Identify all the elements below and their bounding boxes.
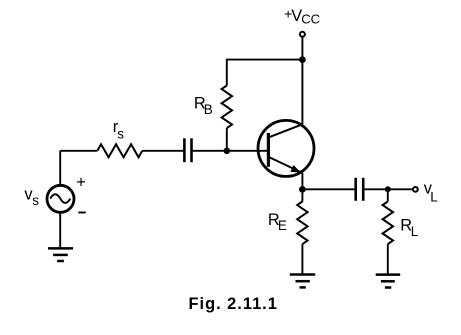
voltage source vs <box>47 185 74 212</box>
wire RB top <box>227 60 303 86</box>
resistor RB <box>222 86 232 129</box>
capacitor C1 <box>184 138 191 162</box>
terminal +VCC <box>300 32 305 37</box>
label +VCC <box>284 6 320 26</box>
label RL <box>400 217 419 239</box>
node VCC junction <box>299 56 306 63</box>
label RB <box>194 95 213 118</box>
svg-text:s: s <box>32 193 39 208</box>
label vL <box>424 180 439 205</box>
node base junction <box>224 148 231 155</box>
svg-text:+: + <box>76 174 86 192</box>
wire C2 to output <box>363 188 412 190</box>
ground (RL) <box>376 275 401 288</box>
svg-text:Fig. 2.11.1: Fig. 2.11.1 <box>189 295 278 313</box>
wire collector <box>301 60 303 125</box>
label vs <box>24 186 39 208</box>
resistor RL <box>383 202 393 245</box>
wire RL top <box>387 189 389 201</box>
ground (RE) <box>290 275 315 288</box>
wire emitter <box>301 173 303 190</box>
node output junction <box>385 186 391 192</box>
terminal vL <box>413 187 418 192</box>
svg-text:L: L <box>430 190 438 205</box>
wire RL bottom <box>387 244 389 275</box>
label rs <box>113 118 125 141</box>
node emitter <box>299 186 306 193</box>
svg-text:E: E <box>278 218 287 233</box>
wire rs to C1 <box>142 150 184 152</box>
ground (source) <box>48 248 73 261</box>
svg-text:B: B <box>204 102 213 117</box>
svg-text:CC: CC <box>301 12 320 27</box>
label RE <box>268 211 287 233</box>
svg-text:L: L <box>411 224 419 239</box>
wire C1 to base <box>192 150 269 152</box>
wire RE top <box>301 189 303 201</box>
capacitor C2 <box>356 178 364 201</box>
wire source top <box>59 151 61 186</box>
wire emitter to C2 <box>302 188 355 190</box>
wire source bottom <box>59 212 61 248</box>
resistor RE <box>297 202 307 245</box>
resistor rs <box>97 144 142 157</box>
wire input left <box>60 150 97 152</box>
wire RE bottom <box>301 244 303 274</box>
minus sign <box>78 212 86 214</box>
wire RB bottom <box>226 128 228 151</box>
transistor Q1 <box>258 120 314 176</box>
svg-text:s: s <box>117 126 124 141</box>
wire VCC terminal <box>301 37 303 59</box>
